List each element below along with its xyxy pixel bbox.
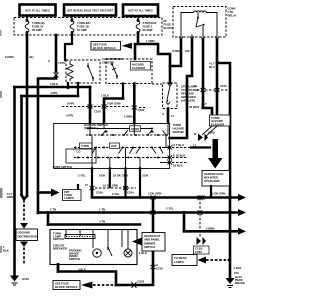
fuse TURN 20 AMP	[25, 20, 44, 34]
svg-text:TURN SWITCH: TURN SWITCH	[53, 165, 73, 169]
svg-text:LAMPS: LAMPS	[174, 260, 184, 264]
header box HOT AT ALL TIMES (right)	[123, 5, 158, 17]
svg-text:BLOCK DETAILS: BLOCK DETAILS	[55, 285, 78, 289]
svg-text:4 PPL: 4 PPL	[50, 91, 58, 95]
connector C100	[54, 73, 59, 78]
svg-text:HORN: HORN	[131, 127, 139, 131]
svg-text:BLOCK: BLOCK	[164, 26, 174, 30]
cluster lamp circle 2	[124, 249, 132, 257]
svg-text:2 DK GRN: 2 DK GRN	[148, 192, 161, 196]
svg-text:4 LT BLU: 4 LT BLU	[172, 143, 184, 147]
horizontal H_c 2 BRN	[184, 230, 240, 233]
relay wire D: down, right, down right edge	[217, 40, 230, 197]
svg-text:3 DK: 3 DK	[142, 174, 148, 178]
svg-text:18 DK GRN: 18 DK GRN	[113, 174, 128, 178]
switch contact row 2 dashed with mode boxes	[74, 147, 162, 149]
node CHMSL to H_a	[210, 196, 213, 199]
svg-text:BLK: BLK	[3, 249, 9, 253]
wire H1 corner down left bundle wire 1	[13, 87, 16, 275]
svg-text:S RED: S RED	[172, 49, 181, 53]
cluster bottom stub	[57, 265, 60, 272]
connector on H_a mid	[151, 196, 156, 200]
node turn flasher ground	[67, 86, 70, 89]
connector blob C209/C210	[197, 237, 207, 245]
wires below connector row	[124, 189, 126, 197]
relay wire B: down, jog left, down right side of stoplamp box	[170, 40, 192, 139]
wire 8 ORN from TURN fuse down (long left vertical)	[26, 34, 29, 197]
arrow to front lamps	[51, 189, 60, 197]
svg-text:20 AMP: 20 AMP	[32, 28, 42, 32]
header box HOT AT ALL TIMES (left)	[20, 5, 56, 16]
svg-text:5 PPL: 5 PPL	[58, 61, 66, 65]
svg-text:DISTRIBUTION: DISTRIBUTION	[18, 235, 38, 239]
svg-text:2 BRN: 2 BRN	[206, 226, 214, 230]
right arrow end H_a	[238, 194, 246, 201]
ground run arrow lower	[20, 242, 28, 248]
relay coil	[194, 11, 207, 13]
svg-text:C204: C204	[127, 191, 134, 195]
wire from middle header to TURN-B/U fuse	[71, 16, 73, 20]
svg-text:8 PPL: 8 PPL	[67, 102, 75, 106]
svg-text:C209: C209	[208, 131, 215, 135]
svg-text:2 YEL: 2 YEL	[112, 192, 120, 196]
dashed link flasher box to stoplamp box	[152, 83, 162, 85]
wire switch output 2	[109, 168, 111, 187]
long horizontal H_a 2 DK GRN	[92, 188, 240, 198]
hazard flasher dashed box	[106, 59, 152, 84]
ground G100	[10, 276, 19, 282]
arrow into rear lamps label	[198, 257, 207, 264]
svg-text:HOT AT ALL TIMES: HOT AT ALL TIMES	[25, 8, 50, 12]
contacts row 1	[89, 130, 167, 136]
wire exit right y147.5 to CHMSL arrow	[162, 135, 170, 148]
wire exit right y162.5	[160, 162, 170, 164]
nodes on H_b	[47, 211, 50, 214]
fuse STOP/HAZ 20 AMP	[136, 20, 157, 34]
svg-text:C209: C209	[195, 250, 202, 254]
dashed ground distribution run	[23, 200, 25, 221]
svg-text:FLASHER: FLASHER	[132, 66, 145, 70]
turn switch label right	[173, 123, 185, 134]
arrow into see fuse block details	[81, 282, 93, 289]
svg-text:1 TN: 1 TN	[99, 208, 105, 212]
connector dashed chain top	[198, 196, 203, 201]
svg-text:C200: C200	[220, 84, 227, 88]
wire switch output 4	[139, 168, 141, 197]
ground hatch right	[227, 286, 233, 288]
wire relay C lower to flasher label box	[203, 92, 212, 115]
svg-text:2 DK GRN: 2 DK GRN	[212, 192, 225, 196]
svg-text:G100: G100	[22, 277, 29, 281]
connector row C204	[95, 187, 136, 189]
wire 2 BLK horizontal H1	[15, 86, 91, 89]
CHMSL box	[202, 171, 230, 187]
svg-text:17: 17	[193, 144, 197, 148]
relay contacts A B C D	[179, 37, 219, 40]
arrow to front lamps label	[38, 191, 51, 194]
switch internal links	[90, 123, 168, 169]
hazard flasher switch	[112, 62, 117, 79]
cluster internal wires	[66, 230, 128, 250]
switch contact row 3 dashed	[74, 157, 162, 159]
svg-text:4 BLK: 4 BLK	[78, 268, 86, 272]
node V green top	[152, 196, 155, 199]
relay contact stubs	[181, 35, 217, 38]
svg-text:SWITCH: SWITCH	[144, 245, 155, 249]
STOP/HAZ fuse wire 1 ORN across and down	[135, 34, 170, 84]
svg-text:4 PPL: 4 PPL	[66, 114, 74, 118]
wire H2 corner down bundle wire 2	[20, 96, 23, 195]
node rear lamps tap	[228, 259, 231, 262]
wire below stoplamp switch into hazard switch box	[167, 109, 170, 123]
arrow H_c right	[238, 228, 246, 235]
wire 5 PPL tap from fuse block down to C100	[55, 35, 58, 72]
svg-text:2 BLK: 2 BLK	[50, 82, 58, 86]
stoplamp switch label	[181, 85, 198, 103]
hazard relay dashed box (convenience center)	[173, 7, 226, 38]
cluster switch blade	[108, 247, 112, 256]
arrow into headlight dimmer label	[132, 238, 142, 246]
turn switch inner box	[66, 149, 96, 163]
horn feed line	[88, 128, 152, 130]
license lamps label box bottom right	[172, 255, 197, 266]
svg-text:TURN: TURN	[81, 144, 89, 148]
svg-text:1 BRN: 1 BRN	[124, 115, 132, 119]
svg-text:FLASHER: FLASHER	[211, 122, 224, 126]
I/P fuse block dashed box	[14, 18, 162, 36]
long horizontal H_b 4 TN	[38, 211, 240, 214]
svg-text:20 AMP: 20 AMP	[143, 28, 153, 32]
svg-text:8 DK: 8 DK	[99, 174, 105, 178]
HORN label box	[130, 126, 141, 131]
wires out of switch box bottom	[91, 168, 93, 187]
relay wire C: down to C200 and label box	[202, 40, 205, 89]
connector cluster C209 right	[198, 134, 208, 142]
ground run arrow upper	[20, 223, 28, 229]
feed corner into cluster box	[47, 213, 50, 225]
svg-text:HOT AT ALL TIMES: HOT AT ALL TIMES	[128, 9, 153, 13]
wire below CHMSL to H_a	[210, 186, 212, 197]
connector row C209 mid	[62, 106, 129, 108]
svg-text:A 18 BLK: A 18 BLK	[173, 154, 185, 158]
svg-text:C302: C302	[138, 280, 145, 284]
nodes on H_a	[124, 196, 127, 199]
lamp cross	[126, 251, 131, 256]
svg-text:A: A	[48, 59, 50, 63]
hazard flasher label	[131, 62, 151, 71]
left bundle merge junction	[22, 195, 28, 199]
cluster lamp circle 1	[93, 249, 101, 257]
wire 4 PPL horizontal H2	[22, 95, 79, 98]
wires out of turn flasher box	[68, 83, 78, 96]
connector row C200	[197, 89, 229, 91]
label box TURN HAZARD FLASHER right	[210, 115, 231, 126]
connector symbols mid row	[88, 105, 137, 110]
C302 connector on bottom run	[132, 282, 137, 288]
svg-text:15 AMP: 15 AMP	[77, 28, 87, 32]
SEE FUSE BLOCK DETAILS box	[91, 42, 121, 51]
1 TN wire over cluster	[48, 223, 140, 226]
edge smudge low	[0, 246, 2, 253]
svg-text:BRAKE: BRAKE	[235, 281, 245, 285]
turn flasher switch	[88, 63, 93, 81]
svg-text:SWITCH: SWITCH	[173, 130, 184, 134]
svg-text:B: B	[194, 132, 196, 136]
node V5 top	[89, 86, 92, 89]
svg-text:(NORMAL): (NORMAL)	[84, 126, 98, 130]
arrow into SEE FUSE BLOCK DETAILS	[122, 43, 133, 49]
label right of relay box	[228, 7, 237, 18]
turn flasher dashed box	[66, 60, 100, 83]
svg-text:LAMPS: LAMPS	[64, 196, 74, 200]
right arrow end H_b	[238, 209, 246, 216]
pointer lines from label box to connector cluster	[202, 126, 217, 137]
svg-text:18 BLK: 18 BLK	[173, 164, 183, 168]
svg-text:2 TN: 2 TN	[50, 208, 56, 212]
svg-text:1 BLK: 1 BLK	[139, 251, 147, 255]
wire from right header to STOP/HAZ fuse	[137, 17, 139, 20]
svg-text:RELAY: RELAY	[228, 14, 237, 18]
dashed run to SEE FUSE BLOCK DETAILS bottom	[93, 284, 114, 286]
wire below C100 jogs left	[38, 76, 56, 213]
svg-text:1 ORN: 1 ORN	[146, 39, 155, 43]
svg-text:GRN: GRN	[7, 195, 13, 199]
hazard switch dashed box	[54, 124, 170, 169]
node fuse2 top	[71, 18, 73, 20]
svg-text:C209: C209	[96, 191, 103, 195]
wire H_b to H_c link	[183, 213, 186, 232]
cluster resistor dotted strip	[66, 236, 94, 238]
connector C209 lower pair	[90, 186, 129, 190]
svg-text:2 DK GRN: 2 DK GRN	[107, 102, 120, 106]
svg-text:SWITCH: SWITCH	[53, 237, 64, 241]
svg-text:BLU: BLU	[201, 106, 207, 110]
right edge wire down to ground	[229, 198, 232, 279]
svg-text:8 ORN: 8 ORN	[5, 55, 14, 59]
ground G right	[226, 278, 235, 284]
convenience center label	[102, 57, 123, 65]
wire switch output 3	[124, 168, 126, 187]
svg-text:18 WHT: 18 WHT	[189, 105, 200, 109]
svg-text:17: 17	[171, 114, 175, 118]
turn flasher symbol	[67, 61, 73, 81]
vertical V green from H_a down to C210	[116, 198, 153, 286]
connector on H_b	[151, 211, 156, 215]
svg-text:BLOCK DETAILS: BLOCK DETAILS	[93, 46, 116, 50]
wire from left header to TURN fuse	[26, 16, 28, 20]
svg-text:C209: C209	[138, 108, 145, 112]
svg-text:BLU: BLU	[209, 65, 215, 69]
cluster text park brake	[69, 249, 82, 261]
svg-text:(B): (B)	[30, 55, 34, 59]
svg-text:4 TN: 4 TN	[99, 220, 105, 224]
svg-text:2 YEL: 2 YEL	[166, 207, 174, 211]
bottom run up into cluster box	[58, 265, 116, 286]
ground distribution box	[16, 229, 38, 241]
connector C200 pair	[201, 88, 220, 92]
edge smudge mid	[0, 188, 3, 198]
node horn line left	[87, 128, 89, 130]
svg-text:2 YEL: 2 YEL	[78, 174, 86, 178]
dashed vertical connector chain right	[199, 198, 201, 237]
node fuse3 top	[137, 18, 139, 20]
svg-text:1 BLK: 1 BLK	[234, 266, 242, 270]
svg-text:C100: C100	[94, 110, 101, 114]
wire exit right y157.5	[162, 157, 170, 159]
svg-text:STOPLAMP: STOPLAMP	[204, 179, 220, 183]
cluster resistor strip box	[65, 235, 95, 239]
SEE FUSE BLOCK DETAILS box bottom	[53, 281, 80, 290]
node stoplamp feed junction	[169, 65, 172, 68]
fuse TURN-B/U 15 AMP	[70, 20, 90, 34]
svg-text:HAZ: HAZ	[111, 144, 117, 148]
svg-text:(APPLIED): (APPLIED)	[181, 99, 195, 103]
wire TURN-B/U fuse to turn flasher	[65, 34, 72, 61]
cluster text optional console	[53, 232, 67, 251]
edge smudges	[0, 91, 2, 98]
instrument cluster box	[50, 230, 137, 265]
headlight dimmer label box	[142, 233, 165, 252]
relay internal wiring	[181, 13, 217, 35]
switch contact row 1 dashed	[86, 134, 168, 136]
node fuse1 top	[26, 18, 28, 20]
header box HOT IN RUN BULB TEST OR START	[64, 5, 116, 16]
label I/P FUSE BLOCK	[164, 19, 174, 30]
edge smudge top	[0, 30, 2, 36]
relay wire A: S RED down and left to stoplamp feed	[170, 40, 181, 67]
relay switch blade	[196, 18, 204, 28]
wire from relay D branch down to C200	[216, 63, 219, 88]
stoplamp switch contacts	[166, 84, 172, 105]
wire V5 down from H1 to switch box	[89, 87, 92, 123]
connector on H_a right	[200, 196, 205, 200]
svg-text:S/G: S/G	[185, 49, 190, 53]
stoplamp switch dashed box	[163, 83, 178, 109]
svg-text:SWITCH: SWITCH	[69, 257, 80, 261]
front lamps label box	[63, 190, 82, 201]
wire below C200 right joins label box	[216, 92, 219, 115]
wire hazard flasher output to switch	[133, 84, 136, 124]
svg-text:18 DK GRN: 18 DK GRN	[103, 184, 118, 188]
svg-text:HOT IN RUN, BULB TEST OR START: HOT IN RUN, BULB TEST OR START	[67, 8, 114, 12]
svg-text:17: 17	[85, 183, 89, 187]
svg-text:C210: C210	[156, 267, 163, 271]
big arrow down to CHMSL	[208, 139, 223, 169]
wire 1 BLK H3 and V6	[104, 99, 123, 124]
wires out of hazard flasher box bottom	[122, 84, 124, 99]
svg-text:A: A	[162, 112, 164, 116]
svg-text:1 BLK: 1 BLK	[101, 94, 109, 98]
C210 connector on V green	[151, 265, 156, 269]
svg-text:BREAKER: BREAKER	[53, 246, 67, 250]
node fuse3 branch	[137, 43, 140, 46]
